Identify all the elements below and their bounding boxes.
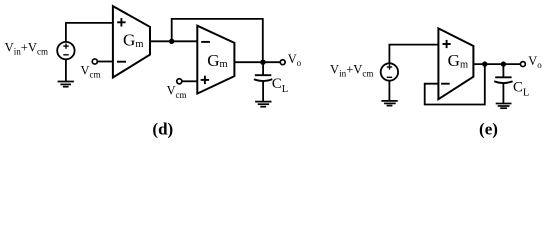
plus sign U3 xyxy=(443,43,451,45)
svg-text:Vcm: Vcm xyxy=(81,63,101,79)
terminal Vo (fig e) xyxy=(520,62,525,67)
wire E2 down to capacitor xyxy=(502,64,504,77)
wire VS2 bottom stub xyxy=(388,81,390,101)
plus sign U1 xyxy=(117,21,125,23)
svg-text:CL: CL xyxy=(513,79,529,98)
op-amp U1 (OTA Gm, fig d first stage) xyxy=(113,6,150,77)
capacitor CL (fig d) xyxy=(255,74,271,76)
svg-text:Vo: Vo xyxy=(528,54,542,70)
op-amp U2 (OTA Gm, fig d second stage) xyxy=(197,26,234,94)
node junction J1 xyxy=(169,39,174,44)
svg-text:Vin+Vcm: Vin+Vcm xyxy=(330,63,373,79)
terminal Vcm T2 xyxy=(177,79,182,84)
voltage source VS2 xyxy=(381,63,398,80)
node junction E1 (feedback tap) xyxy=(482,61,487,66)
node junction E2 (capacitor tap) xyxy=(501,61,506,66)
wire J2 down to capacitor xyxy=(262,62,264,75)
wire U3 output to Vo terminal xyxy=(473,63,520,65)
svg-text:(e): (e) xyxy=(479,120,498,139)
wire VS2 top to amp3 + input xyxy=(389,45,438,64)
ground GND2 xyxy=(255,101,271,103)
svg-text:Vin+Vcm: Vin+Vcm xyxy=(5,40,48,56)
wire capacitor to ground xyxy=(502,83,504,104)
svg-text:CL: CL xyxy=(272,76,288,95)
wire U2 output to Vo terminal xyxy=(234,61,280,63)
minus sign U2 xyxy=(201,41,210,43)
svg-text:(d): (d) xyxy=(152,120,173,139)
ground GND4 xyxy=(496,103,512,105)
voltage source VS1 xyxy=(57,42,74,59)
terminal Vcm T1 xyxy=(92,59,97,64)
node junction J2 (output node) xyxy=(260,60,265,65)
ground GND1 xyxy=(58,81,74,83)
capacitor CL (fig e) xyxy=(495,76,511,78)
wire T1 to U1 minus input xyxy=(97,61,113,63)
wire feedback loop (E1 down, across bottom, up to minus input) xyxy=(425,64,485,104)
ground GND3 xyxy=(381,100,397,102)
svg-text:Vo: Vo xyxy=(288,52,302,68)
minus sign U3 xyxy=(441,83,450,85)
wire T2 to U2 plus input xyxy=(182,80,197,82)
svg-text:Vcm: Vcm xyxy=(167,84,187,100)
wire capacitor to ground xyxy=(262,81,264,102)
plus sign U2 xyxy=(201,79,209,81)
op-amp U3 (OTA Gm, fig e) xyxy=(438,28,473,99)
wire VS1 bottom stub xyxy=(65,59,67,81)
wire U1 output to U2 minus input xyxy=(150,40,197,42)
wire VS1 top to amp1 + input xyxy=(66,23,113,42)
wire feedback loop (J1 up, across top, down to output node) xyxy=(172,19,263,62)
minus sign U1 xyxy=(117,61,126,63)
terminal Vo (fig d) xyxy=(280,60,285,65)
